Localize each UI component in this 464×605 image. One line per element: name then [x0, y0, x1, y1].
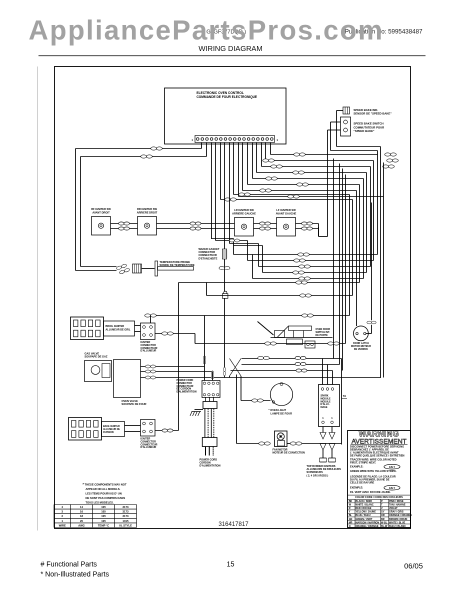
- svg-text:D'ALIMENTATION: D'ALIMENTATION: [177, 391, 197, 394]
- svg-text:DE PORTE: DE PORTE: [316, 334, 329, 337]
- svg-text:D'ALIMENTATION: D'ALIMENTATION: [200, 465, 221, 468]
- svg-text:# Functional Parts: # Functional Parts: [41, 562, 98, 569]
- svg-text:DE VERROU: DE VERROU: [354, 348, 368, 351]
- svg-text:( 2, 4 OR 5 RODS ): ( 2, 4 OR 5 RODS ): [307, 474, 329, 477]
- svg-text:D'ETANCHEITE: D'ETANCHEITE: [199, 256, 218, 260]
- svg-text:ARRIERE GAUCHE: ARRIERE GAUCHE: [232, 211, 256, 215]
- svg-text:BAKE IGNITER: BAKE IGNITER: [103, 425, 120, 428]
- svg-text:18: 18: [80, 514, 83, 518]
- svg-text:BLEU / BLANC: BLEU / BLANC: [389, 525, 406, 528]
- svg-text:AWG: AWG: [78, 523, 84, 527]
- svg-text:WARNING: WARNING: [359, 430, 399, 439]
- svg-text:ARRIERE DROIT: ARRIERE DROIT: [137, 210, 158, 214]
- svg-text:UL STYLE: UL STYLE: [119, 523, 132, 527]
- svg-text:COMMANDE DE FOUR ELECTRONIQUE: COMMANDE DE FOUR ELECTRONIQUE: [197, 95, 258, 99]
- svg-text:SOUPAPE DE FOUR: SOUPAPE DE FOUR: [122, 402, 147, 406]
- svg-text:105: 105: [101, 505, 106, 509]
- svg-text:MODULE: MODULE: [321, 398, 332, 400]
- svg-text:GN-Y: GN-Y: [389, 487, 396, 490]
- svg-text:LES ITEMS POURVUS D' UN: LES ITEMS POURVUS D' UN: [86, 492, 122, 496]
- svg-text:* THESE COMPONENTS MAY NOT: * THESE COMPONENTS MAY NOT: [83, 483, 127, 487]
- svg-text:ALLUMEUR DE: ALLUMEUR DE: [103, 428, 120, 431]
- svg-text:EXEMPLE:: EXEMPLE:: [350, 486, 363, 490]
- svg-text:06/05: 06/05: [404, 562, 423, 571]
- svg-text:TOUS LES MODELES.: TOUS LES MODELES.: [86, 501, 114, 505]
- svg-text:ORANGE / ORANGE: ORANGE / ORANGE: [356, 525, 379, 528]
- svg-text:TA: TA: [343, 394, 346, 398]
- svg-text:FIRST, STRIPE NEXT.: FIRST, STRIPE NEXT.: [350, 460, 376, 464]
- svg-text:AVANT DROIT: AVANT DROIT: [92, 210, 110, 214]
- svg-text:16: 16: [80, 510, 83, 514]
- svg-text:105: 105: [101, 510, 106, 514]
- svg-text:NE SONT PAS COMPRIS DANS: NE SONT PAS COMPRIS DANS: [86, 496, 126, 500]
- svg-text:MOTEUR DE CONVECTION: MOTEUR DE CONVECTION: [273, 451, 306, 454]
- svg-text:SOUPAPE DE GAZ: SOUPAPE DE GAZ: [85, 355, 108, 359]
- svg-text:FIL VERT AVEC RAYURE JAUNE.: FIL VERT AVEC RAYURE JAUNE.: [350, 490, 391, 494]
- svg-text:MAGE: MAGE: [321, 406, 328, 409]
- svg-text:COLOR CODE / CODE DES COULEURS: COLOR CODE / CODE DES COULEURS: [355, 495, 403, 499]
- svg-text:ALLUMEUR DE GRIL: ALLUMEUR DE GRIL: [106, 328, 131, 331]
- svg-text:GREEN WIRE WITH YELLOW STRIPE.: GREEN WIRE WITH YELLOW STRIPE.: [350, 469, 397, 473]
- svg-text:316417817: 316417817: [218, 522, 249, 528]
- svg-text:AVANT GAUCHE: AVANT GAUCHE: [276, 211, 297, 215]
- svg-text:GN-Y: GN-Y: [389, 466, 396, 469]
- svg-text:AppliancePartsPros.com: AppliancePartsPros.com: [29, 15, 383, 46]
- svg-text:1015: 1015: [123, 519, 129, 523]
- svg-text:D'ALLUMEUR: D'ALLUMEUR: [141, 446, 157, 449]
- svg-text:LAMPE DE FOUR: LAMPE DE FOUR: [271, 411, 293, 415]
- svg-text:SENSOR DE "SPEED BAKE": SENSOR DE "SPEED BAKE": [354, 112, 393, 116]
- svg-text:* Non-Illustrated Parts: * Non-Illustrated Parts: [41, 572, 110, 579]
- svg-text:3173: 3173: [123, 505, 129, 509]
- svg-text:105: 105: [101, 514, 106, 518]
- svg-text:CUISSON: CUISSON: [103, 432, 114, 434]
- svg-text:CELLE DE RAYURE: CELLE DE RAYURE: [350, 481, 375, 485]
- svg-text:105: 105: [101, 519, 106, 523]
- svg-text:D'ALLUMEUR: D'ALLUMEUR: [141, 350, 157, 353]
- svg-text:TEMP °C: TEMP °C: [98, 523, 109, 527]
- svg-text:3173: 3173: [123, 510, 129, 514]
- svg-text:20: 20: [80, 519, 83, 523]
- svg-text:SONDE DE TEMPERATURE: SONDE DE TEMPERATURE: [160, 263, 195, 267]
- svg-text:O: O: [349, 525, 351, 528]
- svg-text:14: 14: [80, 505, 83, 509]
- svg-text:WIRE: WIRE: [59, 523, 66, 527]
- svg-text:15: 15: [227, 562, 235, 569]
- svg-text:BL-W: BL-W: [381, 525, 388, 528]
- svg-text:3173: 3173: [123, 514, 129, 518]
- svg-text:"SPEED BAKE": "SPEED BAKE": [354, 129, 376, 133]
- svg-text:EXAMPLE:: EXAMPLE:: [350, 465, 364, 469]
- svg-text:DE FAIRE QUELQUE SERVICE / ENT: DE FAIRE QUELQUE SERVICE / ENTRETIEN: [350, 454, 405, 458]
- svg-text:APPEAR ON ALL MODELS.: APPEAR ON ALL MODELS.: [86, 487, 121, 491]
- svg-text:MODULE: MODULE: [321, 401, 332, 403]
- svg-text:SPARK: SPARK: [321, 395, 329, 398]
- svg-text:D'ALLU-: D'ALLU-: [321, 403, 330, 406]
